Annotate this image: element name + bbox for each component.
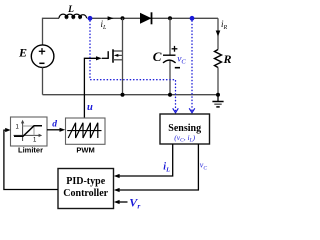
wire: E bottom to bottom rail: [42, 67, 44, 94]
svg-text:E: E: [18, 46, 27, 60]
svg-text:d: d: [52, 120, 57, 130]
capacitor top plate: [163, 54, 176, 56]
wire: gate drive line u with arrow: [84, 58, 97, 118]
svg-text:C: C: [153, 49, 162, 64]
svg-text:iL: iL: [163, 161, 170, 173]
svg-text:vC: vC: [200, 161, 208, 172]
svg-text:Controller: Controller: [63, 188, 108, 199]
svg-text:1: 1: [16, 124, 20, 130]
Limiter saturation curve: [14, 126, 42, 137]
Limiter block box: [11, 117, 48, 146]
Limiter guide lines: [33, 126, 35, 135]
svg-text:L: L: [67, 5, 74, 15]
capacitor C top lead: [169, 18, 171, 55]
node: ground junction dot: [216, 93, 220, 97]
MOSFET source lead: [113, 59, 123, 61]
PWM midline: [67, 130, 101, 132]
minus sign in source: [39, 62, 44, 64]
svg-text:u: u: [87, 102, 93, 113]
wire: V_r reference input to PID: [119, 201, 128, 203]
resistor R zigzag: [215, 50, 222, 68]
capacitor minus sign: [175, 67, 180, 69]
arrow: blue dotted arrowhead into Sensing (left): [173, 108, 179, 112]
node: capacitor bottom junction dot: [168, 93, 172, 97]
wire: bottom rail: [43, 94, 219, 96]
ground symbol: [217, 95, 219, 102]
PID controller block box: [58, 169, 114, 209]
arrow: blue dotted arrowhead into Sensing (right): [189, 108, 195, 112]
arrow: i_L current arrow on rail: [108, 16, 114, 20]
node: MOSFET drain junction dot: [121, 16, 125, 20]
inductor L coil: [59, 14, 87, 18]
node: capacitor top junction dot: [168, 16, 172, 20]
node: blue tap dot after inductor (i_L sense): [88, 16, 93, 21]
wire: PID output feedback to Limiter: [4, 130, 58, 189]
capacitor plus sign: [172, 48, 178, 50]
wire: resistor to bottom rail: [217, 68, 219, 95]
wire: blue dotted v_C sense path: [191, 21, 193, 111]
wire: top rail from inductor to right corner: [87, 17, 218, 19]
plus sign in source: [39, 50, 45, 52]
svg-text:iR: iR: [221, 19, 228, 31]
node: MOSFET source junction dot: [121, 93, 125, 97]
svg-text:Vr: Vr: [129, 196, 140, 211]
node: blue tap dot for v_C sense: [190, 16, 195, 21]
wire: right branch down to resistor: [217, 18, 219, 49]
wire: Sensing iL output to PID: [119, 144, 173, 176]
svg-text:1: 1: [33, 137, 37, 143]
MOSFET Q1 drain lead: [122, 18, 124, 94]
diode D: [140, 13, 152, 24]
arrow: i_R current arrow: [216, 31, 221, 37]
wire: Limiter to PWM with arrow: [47, 129, 61, 131]
svg-text:iL: iL: [101, 19, 108, 31]
wire: top rail left segment (E to inductor): [43, 18, 60, 45]
wire: Sensing vC output to PID: [119, 144, 199, 190]
svg-text:Limiter: Limiter: [18, 146, 43, 155]
capacitor curved bottom plate: [163, 60, 176, 63]
svg-text:PWM: PWM: [76, 146, 94, 155]
Limiter x-axis: [14, 134, 41, 136]
PWM sawtooth: [68, 123, 98, 138]
MOSFET channel bar: [112, 49, 114, 62]
svg-text:R: R: [223, 52, 232, 66]
capacitor bottom lead: [169, 61, 171, 95]
PWM block box: [66, 118, 106, 144]
svg-text:PID-type: PID-type: [66, 176, 105, 187]
Sensing block box: [160, 114, 210, 144]
Limiter y-axis: [22, 122, 24, 142]
MOSFET gate bar: [107, 51, 109, 59]
voltage source E circle: [31, 45, 54, 68]
svg-text:(vC, iL): (vC, iL): [174, 133, 195, 144]
wire: blue dotted i_L sense path: [90, 21, 176, 111]
MOSFET body arrow: [118, 54, 123, 56]
svg-text:vC: vC: [177, 54, 186, 65]
